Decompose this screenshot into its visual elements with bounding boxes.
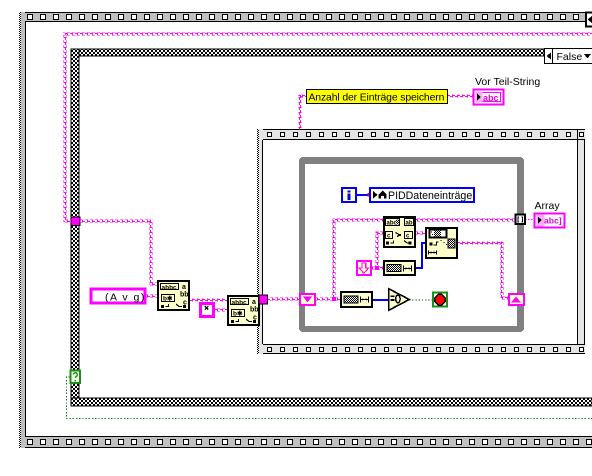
case selector label "False" (545, 49, 592, 64)
svg-text:b✱: b✱ (233, 310, 243, 318)
match pattern function 2 (228, 296, 259, 325)
inner case structure: right band (577, 140, 585, 344)
wire: search-replace out2 to spreadsheet-string-to-array (415, 232, 426, 235)
svg-text:abc: abc (483, 93, 499, 103)
wire: top long string wire horizontal (63, 33, 592, 36)
svg-text:bb: bb (250, 307, 259, 314)
outer sequence structure: left band (19, 12, 26, 448)
string constant * (201, 304, 214, 317)
inner case structure: top band (257, 129, 585, 140)
svg-text:PIDDateneinträge: PIDDateneinträge (388, 190, 472, 202)
outer sequence structure: bottom band (19, 436, 592, 448)
wire: blue integer from string length 2 to equal-zero (372, 299, 389, 301)
while loop (thick gray frame) (299, 157, 524, 332)
string length function 1 (384, 261, 415, 275)
svg-text:abbc: abbc (232, 300, 248, 307)
wire: dotted from indexing tunnel to Array indicator (525, 219, 534, 221)
magenta tunnel on case left border (71, 217, 80, 226)
match pattern function 1 (158, 281, 189, 310)
string length function 2 (341, 292, 372, 307)
wire: label wire down to inner case border (299, 95, 302, 130)
svg-text:Array: Array (535, 200, 561, 212)
wire: spreadsheet-to-array out to right shift register (457, 242, 502, 245)
auto-indexing tunnel on loop border (516, 215, 526, 225)
red coercion dot (368, 193, 372, 197)
svg-text:Anzahl der Einträge speichern: Anzahl der Einträge speichern (309, 92, 445, 103)
search and replace string function (384, 217, 415, 247)
yellow free label "Anzahl der Einträge speichern" (307, 90, 448, 104)
svg-text:(A v g): (A v g) (105, 292, 146, 304)
spreadsheet string to array function (426, 228, 457, 258)
wire: left long string wire vertical (64, 33, 67, 221)
outer sequence structure: top band (19, 12, 586, 22)
wire: green boolean long wire to case selector (67, 377, 592, 419)
svg-text:a: a (182, 284, 186, 291)
svg-text:b✱: b✱ (163, 295, 173, 303)
svg-text:abbc: abbc (162, 285, 178, 292)
svg-text:abc]: abc] (544, 216, 562, 226)
case structure (False): bottom band (71, 398, 592, 406)
wire: branch to down-arrow and string length 1 (376, 232, 379, 268)
svg-text:a: a (252, 299, 256, 306)
svg-text:ab: ab (406, 221, 413, 227)
iteration terminal i (342, 188, 356, 202)
wire: tunnel to match pattern 1 (80, 220, 151, 223)
svg-text:abc: abc (387, 221, 398, 227)
right shift register (up arrow) (509, 294, 524, 305)
case structure (False): top band (71, 49, 544, 56)
string array indicator Array (535, 214, 565, 228)
magenta tunnel on inner case left border (259, 295, 268, 304)
stop boolean terminal (433, 293, 447, 307)
wire: blue from iteration terminal to name label (357, 194, 369, 196)
wire: corner into tunnel (64, 220, 73, 223)
svg-text:False: False (557, 51, 583, 63)
svg-text:Vor Teil-String: Vor Teil-String (475, 76, 540, 88)
wire: inner tunnel to left shift register (267, 298, 300, 301)
wire: search-replace out to indexing tunnel (415, 219, 516, 222)
outer structure selector decrement box (586, 13, 592, 27)
left shift register (down arrow) (300, 294, 315, 305)
wire: * constant to match pattern 2 (215, 309, 228, 312)
green case selector terminal [?] (71, 371, 81, 384)
dequeue (magenta down arrow) node (357, 261, 371, 275)
queue name label PIDDateneinträge (370, 188, 474, 202)
wire: blue integer from string length 1 to spreadsheet-to-array (415, 243, 426, 268)
string indicator Vor Teil-String (474, 90, 504, 105)
case structure (False): left band (71, 49, 79, 406)
svg-text:bb: bb (180, 292, 189, 299)
wire: green boolean from equal-zero to stop terminal (409, 299, 433, 301)
equal to zero comparison (389, 289, 410, 311)
inner case structure: left band (257, 129, 263, 354)
wire: match pattern 1 out to match pattern 2 (189, 299, 228, 302)
inner case structure: bottom band (257, 344, 585, 354)
string constant (Avg) (91, 289, 146, 304)
wire: left shift register to string length 2 / branch up (315, 298, 341, 301)
wire: Avg constant to match pattern 1 (146, 295, 158, 298)
